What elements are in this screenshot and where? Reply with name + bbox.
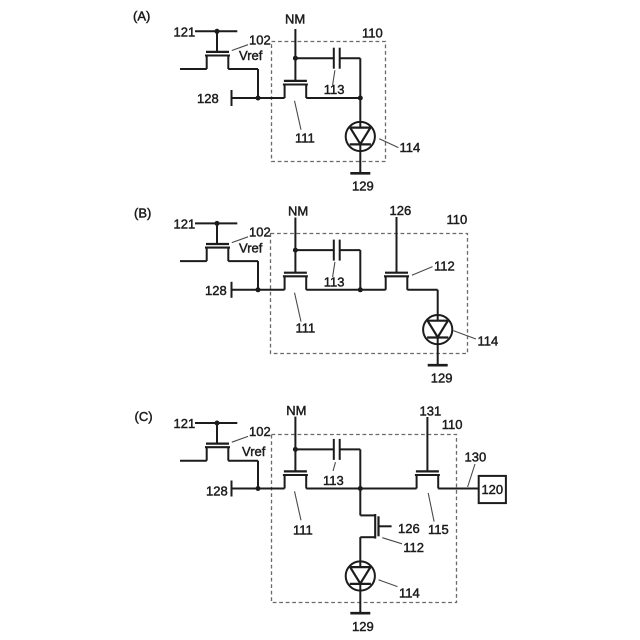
svg-text:110: 110: [447, 212, 468, 227]
svg-text:113: 113: [323, 473, 344, 488]
svg-text:121: 121: [174, 416, 196, 431]
svg-text:131: 131: [420, 403, 442, 418]
svg-text:114: 114: [400, 140, 421, 155]
svg-text:NM: NM: [285, 11, 305, 26]
svg-text:111: 111: [296, 321, 316, 336]
svg-text:112: 112: [403, 540, 424, 555]
svg-text:114: 114: [478, 333, 499, 348]
svg-text:110: 110: [442, 417, 463, 432]
svg-text:128: 128: [206, 483, 228, 498]
svg-text:102: 102: [249, 225, 271, 240]
svg-text:(B): (B): [134, 206, 151, 221]
svg-text:120: 120: [481, 482, 503, 497]
svg-text:(A): (A): [133, 8, 150, 23]
svg-text:111: 111: [295, 131, 315, 146]
svg-text:126: 126: [398, 521, 420, 536]
svg-text:Vref: Vref: [239, 48, 263, 63]
svg-text:130: 130: [465, 450, 487, 465]
svg-text:102: 102: [249, 33, 271, 48]
svg-text:129: 129: [352, 619, 374, 634]
svg-text:111: 111: [293, 523, 313, 538]
svg-text:126: 126: [390, 203, 412, 218]
svg-text:NM: NM: [286, 403, 306, 418]
svg-text:114: 114: [399, 586, 420, 601]
svg-text:121: 121: [174, 25, 196, 40]
svg-text:121: 121: [174, 217, 196, 232]
svg-text:110: 110: [362, 26, 383, 41]
svg-text:129: 129: [431, 371, 453, 386]
svg-text:NM: NM: [288, 203, 308, 218]
svg-text:128: 128: [205, 283, 227, 298]
svg-text:113: 113: [324, 82, 345, 97]
svg-text:113: 113: [324, 275, 345, 290]
svg-text:112: 112: [434, 259, 455, 274]
svg-text:129: 129: [352, 179, 374, 194]
svg-text:115: 115: [428, 522, 449, 537]
svg-text:(C): (C): [135, 409, 153, 424]
svg-text:102: 102: [249, 424, 271, 439]
svg-text:Vref: Vref: [242, 444, 266, 459]
svg-text:Vref: Vref: [239, 241, 263, 256]
svg-text:128: 128: [197, 91, 219, 106]
